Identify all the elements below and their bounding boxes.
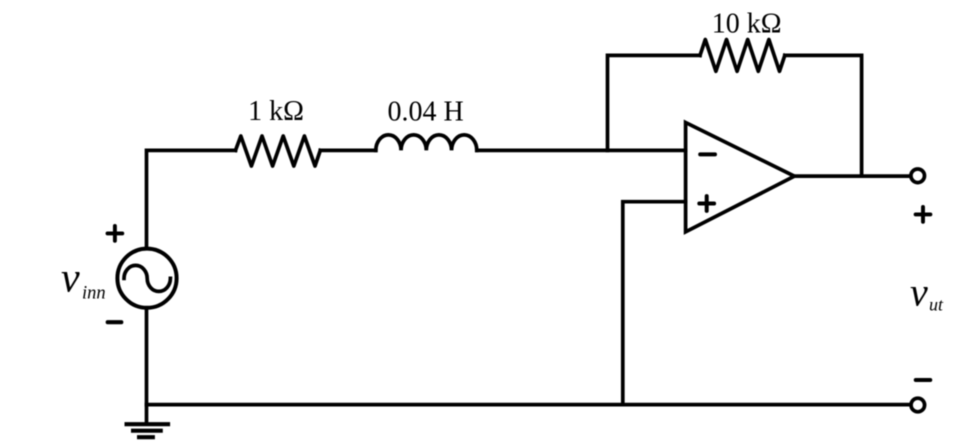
- op-amp plus (non-inverting input marker): [699, 196, 714, 211]
- wire: non-inverting input horizontal and vertical down to ground rail: [623, 202, 686, 405]
- label + at source: [108, 226, 123, 241]
- svg-text:inn: inn: [82, 284, 106, 304]
- label minus at source: [108, 320, 122, 324]
- op-amp U1 triangle: [686, 123, 795, 232]
- terminal: output (open circle): [911, 169, 925, 183]
- terminal: bottom (open circle): [911, 398, 925, 412]
- op-amp minus (inverting input marker): [700, 152, 715, 156]
- svg-text:ut: ut: [929, 295, 944, 315]
- svg-text:10 kΩ: 10 kΩ: [712, 9, 782, 40]
- wire: left vertical from top-left corner down to source top: [147, 150, 236, 247]
- label + at output: [916, 207, 931, 222]
- resistor R2 10 kOhm zigzag: [700, 40, 785, 72]
- svg-text:v: v: [910, 270, 928, 315]
- svg-text:v: v: [61, 256, 80, 302]
- wire: bottom rail from ground node to bottom terminal: [147, 403, 911, 407]
- voltage source sine wave: [124, 265, 170, 291]
- wire: feedback top right horizontal and right vertical down to output: [785, 55, 862, 176]
- label minus at bottom terminal: [916, 378, 930, 382]
- svg-text:0.04 H: 0.04 H: [387, 97, 463, 128]
- svg-text:1 kΩ: 1 kΩ: [248, 96, 304, 127]
- wire: source bottom vertical down to ground: [145, 310, 149, 423]
- wire: feedback left vertical up from input node: [608, 55, 701, 150]
- ground symbol: [127, 424, 168, 437]
- wire: op-amp output to terminal: [794, 174, 910, 178]
- resistor R1 1 kOhm zigzag: [236, 136, 321, 166]
- inductor L1 0.04 H: [376, 135, 477, 151]
- wire: inductor to op-amp inverting input: [477, 149, 686, 153]
- voltage source V1 circle: [117, 249, 176, 308]
- wire: resistor to inductor: [320, 149, 376, 153]
